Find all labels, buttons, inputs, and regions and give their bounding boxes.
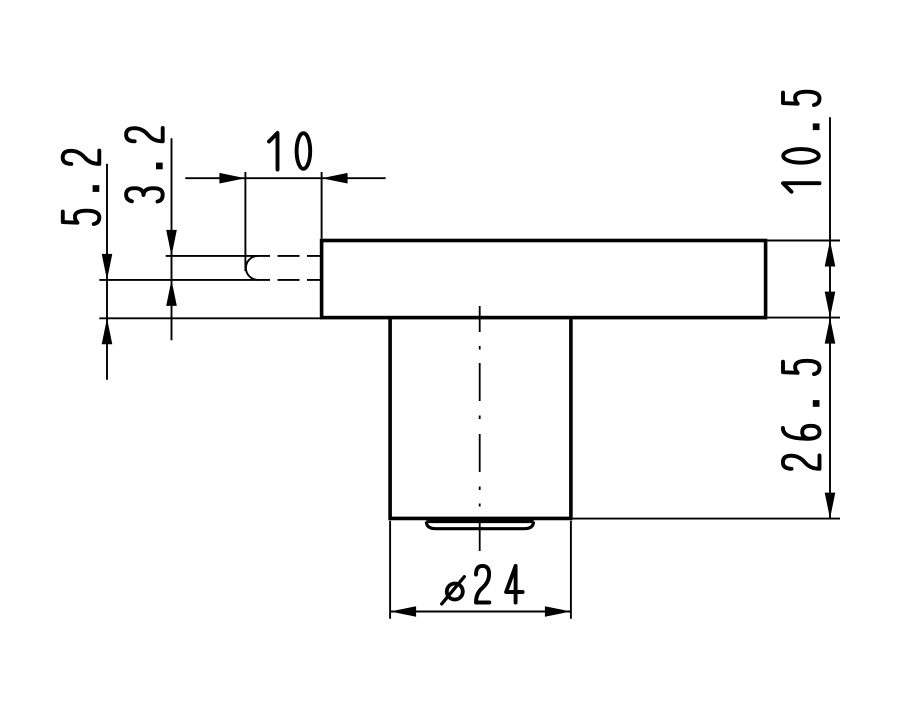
bottom insert bead [426,522,533,529]
hidden slot bottom line dashed part [278,279,321,281]
arrow 26.5 down [825,493,836,519]
arrow 3.2 down [166,230,177,256]
arrow 26.5 up [825,318,836,344]
extension line plate bottom left [99,317,321,319]
label 5.2 [63,151,100,224]
slot rounded end arc [246,256,258,280]
label dia 24 [442,566,523,604]
hidden slot top line solid part [166,255,270,257]
extension line plate bottom right [767,317,840,319]
extension line dia24 left [389,521,391,619]
extension line 10 right [321,172,323,239]
arrow 10 left [322,173,348,184]
plate outline (top flange of knob, section view) [322,241,766,318]
arrow 10.5 up [825,241,836,267]
centerline dash-dot [479,306,481,551]
label 10.5 [783,92,820,192]
dimension line dia 24 [390,611,571,613]
hidden slot top line dashed part [278,255,321,257]
dimension line 5.2 [106,164,108,380]
extension line 10 left [244,172,246,271]
arrow dia24 left [390,606,416,617]
hidden slot bottom line solid part [99,279,270,281]
arrow 10 right [219,173,245,184]
boss cylinder outline [390,319,571,519]
right dimension line 10.5 and 26.5 [829,117,831,518]
label 3.2 [126,128,163,202]
dimension line 3.2 [171,138,173,340]
extension line dia24 right [570,521,572,619]
arrow 10.5 down [825,292,836,318]
dimension line 10 [185,177,385,179]
arrow dia24 right [545,606,571,617]
label 10 [269,133,310,170]
extension line boss bottom right [573,518,840,520]
extension line plate top right [767,240,840,242]
label 26.5 [783,361,820,469]
arrow 5.2 down [102,254,113,280]
arrow 3.2 up [166,280,177,306]
arrow 5.2 up [102,318,113,344]
